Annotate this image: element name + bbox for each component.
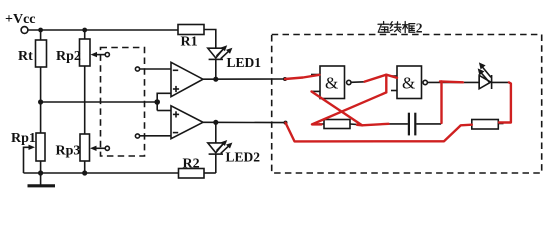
junction mid node A bbox=[38, 99, 43, 104]
wire U2 output to R4 bottom run (red) bbox=[286, 123, 472, 142]
resistor Rt bbox=[36, 40, 47, 67]
potentiometer Rp3 bbox=[80, 134, 90, 161]
wire U1 output to G1 input A (red) bbox=[285, 75, 320, 79]
wire R1 to LED1 bbox=[204, 30, 216, 49]
node U2 inverting input terminal bbox=[135, 134, 139, 138]
op-amp U1 bbox=[171, 62, 203, 96]
wire G2 output to C1 right (red) bbox=[440, 80, 463, 83]
svg-text:R1: R1 bbox=[181, 35, 198, 50]
wire Vcc rail to Rp2 bbox=[84, 30, 86, 39]
wire Rp1 to bottom rail bbox=[40, 161, 42, 173]
resistor R2 bbox=[179, 169, 205, 179]
wiper of Rp2 bbox=[94, 54, 105, 56]
glyph kuang bbox=[404, 22, 406, 33]
svg-text:Rp3: Rp3 bbox=[56, 144, 81, 159]
wire R2 to LED2 bbox=[204, 172, 216, 174]
potentiometer Rp2 bbox=[80, 39, 91, 66]
wire bottom rail bbox=[24, 172, 179, 174]
junction ground node bbox=[38, 170, 43, 175]
glyph xu bbox=[383, 22, 385, 25]
wire LED D3 to R4 (red) bbox=[499, 82, 511, 122]
wiper of Rp1 bbox=[24, 147, 32, 173]
ground bbox=[40, 173, 42, 186]
wire Rp3 to bottom rail bbox=[84, 161, 86, 173]
svg-text:Rp2: Rp2 bbox=[56, 49, 81, 64]
red wires bbox=[285, 75, 511, 142]
svg-text:Rt: Rt bbox=[18, 49, 33, 64]
LED D2 bbox=[215, 122, 217, 143]
node U1 inverting input terminal bbox=[135, 67, 139, 71]
wire U1 output bbox=[203, 78, 285, 80]
dashed selector box 1 bbox=[101, 48, 145, 157]
capacitor C1 bbox=[388, 123, 408, 125]
wire G1 output to G2 inputs (red) bbox=[365, 75, 397, 82]
wire mid rail to op-amp inputs bbox=[41, 101, 158, 103]
junction op-amp plus node bbox=[154, 99, 160, 105]
glyph xian bbox=[390, 22, 393, 29]
wire Rp2 to Rp3 bbox=[84, 66, 86, 134]
NAND gate G2 bbox=[397, 66, 422, 99]
wire R3 to C1 (red) bbox=[357, 124, 389, 126]
svg-text:&: & bbox=[402, 74, 415, 93]
NAND gate G1 bbox=[320, 66, 345, 99]
terminal Vcc bbox=[21, 27, 28, 34]
junction top of Rt bbox=[38, 28, 43, 33]
svg-text:LED1: LED1 bbox=[227, 55, 262, 70]
label dashed box 2 bbox=[378, 21, 423, 36]
svg-text:R2: R2 bbox=[183, 157, 200, 172]
resistor R3 in box 2 bbox=[324, 120, 350, 129]
junction bottom of Rp3 bbox=[82, 170, 87, 175]
svg-text:Rp1: Rp1 bbox=[11, 131, 36, 146]
LED D3 bbox=[478, 75, 480, 88]
wire G1 input B cross diagonal (red) bbox=[312, 92, 363, 126]
resistor R4 in box 2 bbox=[472, 120, 499, 130]
svg-text:LED2: LED2 bbox=[226, 150, 261, 165]
wire Vcc to Rt bbox=[40, 30, 42, 40]
svg-text:+Vcc: +Vcc bbox=[5, 12, 36, 27]
LED D1 bbox=[208, 48, 224, 58]
potentiometer Rp1 bbox=[36, 133, 45, 161]
wire top rail bbox=[28, 29, 178, 31]
svg-text:&: & bbox=[325, 74, 338, 93]
junction top of Rp2 bbox=[82, 28, 87, 33]
wire U2 output bbox=[203, 121, 286, 123]
wire G1 output feedback diagonal (red) bbox=[312, 92, 386, 124]
wire Rt to mid node bbox=[40, 67, 42, 133]
wiper of Rp3 bbox=[94, 147, 106, 149]
op-amp U2 bbox=[171, 106, 203, 139]
resistor R1 bbox=[178, 25, 204, 35]
dashed box 2 bbox=[272, 35, 542, 174]
svg-text:2: 2 bbox=[416, 21, 423, 36]
